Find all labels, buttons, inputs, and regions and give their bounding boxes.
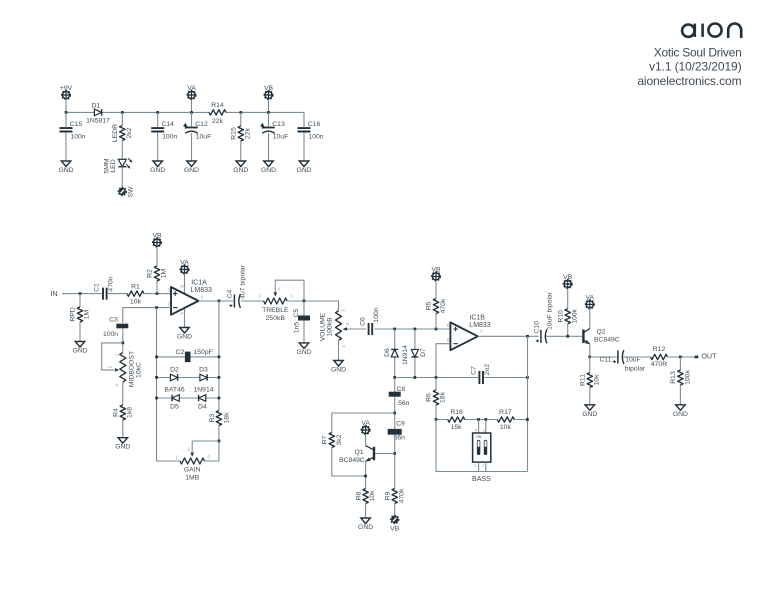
potentiometer TREBLE 250kB — [264, 297, 288, 306]
wire R1 to op-amp — [144, 293, 171, 295]
ground R15 — [236, 161, 246, 167]
svg-text:470k: 470k — [440, 298, 447, 313]
junction VA/C12 — [190, 111, 193, 114]
wire bass bottom row — [436, 420, 528, 472]
svg-text:C12: C12 — [195, 121, 208, 128]
wire IC1A output — [198, 300, 263, 302]
svg-text:D7: D7 — [420, 348, 427, 357]
wire C2 row — [157, 356, 219, 358]
trimmer MIDBOOST 10kC — [118, 353, 127, 383]
trimmer GAIN 1MB — [180, 457, 205, 466]
wire power rail — [66, 111, 304, 113]
svg-text:IN: IN — [50, 289, 57, 298]
wire treble bracket — [275, 280, 304, 301]
pad VA Q1 — [361, 426, 370, 435]
diode D6 — [394, 329, 396, 378]
capacitor C4 — [233, 295, 241, 308]
wire switch pole 1 bottom — [478, 462, 480, 471]
svg-text:4: 4 — [180, 312, 185, 315]
capacitor C14 — [157, 112, 159, 161]
pad VB bias R2 — [153, 238, 162, 247]
wire D5 D4 row — [157, 397, 219, 399]
junction C6/D7 — [414, 328, 417, 331]
capacitor C2 — [185, 352, 191, 363]
pad OUT — [695, 356, 699, 359]
wire R8 to ground — [365, 504, 367, 519]
pad SW — [118, 187, 126, 195]
svg-text:100n: 100n — [308, 134, 323, 141]
switch BASS DIP — [473, 433, 491, 462]
diode D2 — [170, 374, 177, 381]
ground C15 — [61, 161, 71, 167]
junction R5 bottom — [435, 328, 438, 331]
wire bass top row — [436, 419, 528, 421]
wire Q1 emitter to R8 — [365, 461, 367, 488]
junction R13/OUT — [679, 356, 682, 359]
svg-text:GND: GND — [296, 349, 311, 356]
ground RPD — [75, 342, 85, 348]
transistor Q1 BC849C — [373, 447, 375, 461]
svg-text:D1: D1 — [92, 103, 101, 110]
svg-text:3: 3 — [167, 288, 170, 293]
svg-text:VB: VB — [152, 233, 162, 240]
svg-text:C16: C16 — [308, 121, 321, 128]
capacitor C15 — [65, 112, 67, 161]
svg-text:10k: 10k — [593, 374, 600, 386]
svg-text:SW: SW — [127, 186, 134, 198]
resistor R17 — [497, 415, 514, 423]
svg-text:R6: R6 — [426, 393, 433, 402]
svg-text:R3: R3 — [209, 413, 216, 422]
svg-text:GND: GND — [358, 524, 373, 531]
wire R12 to OUT — [668, 356, 695, 358]
svg-text:bipolar: bipolar — [625, 366, 646, 373]
resistor LEDR — [121, 112, 123, 158]
wire C3 to MIDBOOST — [122, 329, 124, 353]
svg-text:BASS: BASS — [472, 476, 491, 483]
pad VB bias R5 — [432, 272, 441, 281]
ground C13 — [264, 161, 274, 167]
junction D5 row right — [218, 397, 221, 400]
transistor Q2 BC849C — [582, 330, 584, 344]
svg-text:R4: R4 — [113, 408, 120, 417]
ground C12 — [187, 161, 197, 167]
junction IN/RPD — [79, 292, 82, 295]
svg-text:1N914: 1N914 — [193, 387, 213, 394]
pad VB R10 — [563, 280, 572, 289]
capacitor C6 — [367, 323, 373, 335]
junction MIDBOOST bracket — [122, 342, 125, 345]
junction R6 top — [435, 376, 438, 379]
resistor R9 — [391, 489, 399, 504]
svg-text:D6: D6 — [384, 348, 391, 357]
junction treble/C5 — [303, 300, 306, 303]
svg-text:100k: 100k — [684, 370, 691, 385]
ground C14 — [153, 161, 163, 167]
diode D5 — [172, 395, 179, 402]
svg-text:R17: R17 — [499, 409, 512, 416]
wire R9 to VB pad — [394, 504, 396, 516]
pad VA Q2 — [585, 300, 594, 309]
wire R7 top bracket — [332, 413, 395, 433]
svg-text:10uF: 10uF — [273, 134, 289, 141]
pad VA power — [187, 91, 196, 100]
svg-text:470R: 470R — [651, 361, 667, 368]
svg-text:GND: GND — [72, 348, 87, 355]
svg-text:10k: 10k — [369, 490, 376, 502]
svg-text:VOLUME: VOLUME — [320, 312, 327, 341]
svg-text:v1.1 (10/23/2019): v1.1 (10/23/2019) — [649, 60, 741, 74]
svg-text:GND: GND — [58, 167, 73, 174]
resistor R3 — [215, 411, 223, 426]
svg-text:GND: GND — [261, 167, 276, 174]
svg-text:LM833: LM833 — [190, 287, 212, 294]
capacitor C1 — [102, 288, 108, 300]
junction Q1 base node — [393, 452, 396, 455]
junction VB/C13 — [267, 111, 270, 114]
resistor R6 — [435, 378, 437, 420]
svg-text:C15: C15 — [70, 121, 83, 128]
svg-text:OUT: OUT — [701, 351, 717, 360]
logo aion — [682, 24, 741, 39]
ground R8 — [361, 518, 371, 524]
svg-text:C5: C5 — [293, 308, 300, 317]
wire C10 to Q2 — [546, 335, 582, 337]
wire C6 to IC1B — [375, 328, 451, 330]
ground C5 — [299, 343, 309, 349]
svg-text:Q2: Q2 — [597, 329, 606, 336]
resistor R12 — [651, 353, 668, 361]
pad +9V — [62, 91, 71, 100]
potentiometer TREBLE wiper arrow — [274, 292, 278, 296]
svg-text:2: 2 — [167, 302, 170, 307]
ground R13 — [676, 405, 686, 411]
wire +9V to rail — [65, 99, 67, 112]
svg-text:LM833: LM833 — [469, 322, 491, 329]
ground R4 — [118, 438, 128, 444]
junction output/feedback — [218, 300, 221, 303]
capacitor C11 — [617, 351, 625, 364]
svg-text:VA: VA — [187, 85, 196, 92]
junction D2 row right — [218, 376, 221, 379]
capacitor C12 — [191, 112, 193, 161]
junction rail/C14 — [156, 111, 159, 114]
wire feedback vertical right — [527, 336, 529, 471]
resistor R1 — [127, 289, 144, 297]
svg-text:C10: C10 — [533, 321, 540, 334]
junction Q1 emitter/R7 — [364, 475, 367, 478]
resistor R13 — [679, 357, 681, 405]
wire R7 bottom bracket — [332, 448, 366, 477]
wire IC1B output — [478, 335, 539, 337]
svg-text:Q1: Q1 — [354, 449, 363, 456]
wire VA to rail — [191, 99, 193, 112]
wire switch pole 2 bottom — [485, 462, 487, 471]
svg-text:1M: 1M — [161, 268, 168, 278]
wire feedback rail right — [205, 301, 219, 461]
diode D1 — [94, 109, 101, 116]
svg-text:10k: 10k — [500, 424, 512, 431]
junction GAIN bracket — [218, 440, 221, 443]
wire VA to IC1A pin 8 — [184, 274, 186, 295]
svg-text:6: 6 — [447, 338, 450, 343]
svg-text:MIDBOOST: MIDBOOST — [129, 351, 136, 387]
svg-text:56n: 56n — [394, 435, 406, 442]
svg-text:10k: 10k — [130, 299, 142, 306]
svg-text:VB: VB — [563, 274, 573, 281]
wire input — [62, 293, 127, 295]
svg-text:100n: 100n — [103, 331, 118, 338]
svg-text:GND: GND — [673, 411, 688, 418]
svg-text:56n: 56n — [398, 400, 410, 407]
svg-text:22k: 22k — [245, 127, 252, 139]
wire Q2 emitter down — [589, 344, 591, 357]
svg-text:100n: 100n — [162, 134, 177, 141]
svg-text:R8: R8 — [355, 491, 362, 500]
pad VB Q1 — [391, 515, 399, 523]
diode D3 — [200, 374, 207, 381]
svg-text:ON: ON — [476, 435, 482, 439]
svg-text:VA: VA — [586, 294, 595, 301]
trimmer GAIN wiper arrow — [190, 453, 194, 457]
svg-text:100k: 100k — [572, 308, 579, 323]
svg-text:IC1B: IC1B — [469, 314, 485, 321]
LED 5MM — [118, 159, 126, 167]
junction C2 left — [155, 356, 158, 359]
wire feedback row IC1B — [395, 377, 528, 379]
wire C11 to R12 — [623, 356, 651, 358]
wire switch pole 1 top — [478, 420, 480, 434]
junction D2 row left — [155, 376, 158, 379]
ground VOLUME — [334, 361, 344, 367]
resistor RPD — [79, 294, 81, 342]
svg-text:IC1A: IC1A — [191, 280, 207, 287]
capacitor C16 — [303, 112, 305, 161]
wire D2 D3 row — [157, 377, 219, 379]
svg-text:4: 4 — [475, 428, 477, 432]
junction C6/D6 — [393, 328, 396, 331]
svg-text:GND: GND — [115, 444, 130, 451]
svg-text:R9: R9 — [384, 491, 391, 500]
svg-text:VA: VA — [361, 420, 370, 427]
svg-text:LED: LED — [110, 159, 117, 172]
junction R10/Q2 base — [566, 335, 569, 338]
svg-text:VA: VA — [180, 260, 189, 267]
svg-text:R13: R13 — [670, 371, 677, 384]
svg-text:5: 5 — [447, 323, 450, 328]
svg-text:1M: 1M — [84, 309, 91, 319]
svg-text:C7: C7 — [471, 366, 478, 375]
junction Q2 emitter — [588, 356, 591, 359]
svg-text:R14: R14 — [211, 102, 224, 109]
svg-text:15k: 15k — [451, 424, 463, 431]
junction rail/LEDR — [121, 111, 124, 114]
wire LED to SW — [121, 167, 123, 188]
resistor R4 — [122, 382, 124, 438]
svg-text:100n: 100n — [373, 307, 380, 322]
svg-text:C1: C1 — [94, 283, 101, 292]
resistor R7 — [328, 433, 336, 448]
svg-text:D5: D5 — [170, 404, 179, 411]
svg-text:GND: GND — [177, 334, 192, 341]
junction +9V/C15 — [65, 111, 68, 114]
svg-text:aionelectronics.com: aionelectronics.com — [637, 74, 741, 88]
junction switch pole 1 top — [477, 418, 480, 421]
svg-text:GND: GND — [582, 411, 597, 418]
op-amp IC1A — [171, 287, 198, 315]
svg-text:C13: C13 — [272, 121, 285, 128]
svg-text:C11: C11 — [600, 357, 612, 364]
junction C8/R7 — [393, 412, 396, 415]
svg-text:C8: C8 — [397, 386, 406, 393]
svg-text:250kB: 250kB — [266, 315, 286, 322]
wire VB to rail — [268, 99, 270, 112]
svg-text:GND: GND — [296, 167, 311, 174]
wire MIDBOOST wiper bracket — [102, 343, 123, 370]
svg-text:BAT46: BAT46 — [164, 387, 184, 394]
svg-text:R2: R2 — [147, 269, 154, 278]
svg-text:2: 2 — [482, 464, 484, 468]
junction D7 bottom — [414, 376, 417, 379]
svg-text:+9V: +9V — [60, 85, 73, 92]
svg-text:R7: R7 — [321, 435, 328, 444]
ground R11 — [585, 405, 595, 411]
capacitor C9 — [388, 429, 402, 435]
potentiometer VOLUME wiper arrow — [345, 328, 367, 330]
junction bass right — [526, 418, 529, 421]
svg-text:100kB: 100kB — [327, 317, 334, 337]
svg-text:C14: C14 — [161, 121, 174, 128]
svg-text:100n: 100n — [70, 134, 85, 141]
svg-text:2k2: 2k2 — [126, 127, 133, 138]
potentiometer VOLUME 100kB — [334, 311, 343, 341]
wire treble to volume — [287, 301, 338, 311]
svg-text:R1: R1 — [131, 284, 140, 291]
svg-text:3: 3 — [483, 428, 485, 432]
svg-text:150pF: 150pF — [194, 349, 213, 356]
wire C9 to base node — [394, 435, 396, 489]
svg-text:10kC: 10kC — [136, 362, 143, 378]
capacitor C3 — [116, 324, 128, 329]
svg-text:470k: 470k — [398, 488, 405, 503]
svg-text:LEDR: LEDR — [112, 124, 119, 142]
trimmer MIDBOOST wiper arrow — [115, 368, 119, 372]
svg-text:1N5817: 1N5817 — [86, 118, 110, 125]
svg-text:10uF bipolar: 10uF bipolar — [547, 291, 554, 330]
svg-text:GND: GND — [184, 167, 199, 174]
svg-text:C2: C2 — [176, 349, 185, 356]
svg-text:R15: R15 — [230, 127, 237, 140]
resistor R2 — [156, 247, 158, 294]
svg-text:7: 7 — [480, 330, 483, 335]
wire Q1 base — [375, 453, 395, 455]
svg-text:TREBLE: TREBLE — [262, 307, 289, 314]
svg-text:D2: D2 — [170, 367, 179, 374]
diode D4 — [199, 395, 206, 402]
capacitor C8 — [394, 378, 396, 430]
wire emitter to C11 — [590, 356, 617, 358]
pad VB power — [264, 91, 273, 100]
svg-text:GND: GND — [331, 367, 346, 374]
capacitor C13 — [268, 112, 270, 161]
svg-text:470n: 470n — [108, 276, 115, 291]
wire VA to Q1 collector — [365, 434, 367, 445]
svg-text:4u7 bipolar: 4u7 bipolar — [240, 264, 247, 298]
junction switch pole 2 top — [484, 418, 487, 421]
svg-text:1: 1 — [201, 294, 204, 299]
svg-text:2n2: 2n2 — [484, 364, 491, 376]
svg-text:1n5: 1n5 — [293, 322, 300, 334]
svg-text:VB: VB — [431, 266, 441, 273]
junction R2/+input — [156, 292, 159, 295]
capacitor C10 — [540, 330, 548, 343]
svg-text:BC849C: BC849C — [339, 457, 365, 464]
svg-text:22k: 22k — [212, 118, 224, 125]
svg-text:C6: C6 — [360, 317, 367, 326]
svg-text:18k: 18k — [440, 391, 447, 403]
ground IC1A — [180, 328, 190, 334]
svg-text:D3: D3 — [199, 367, 208, 374]
svg-text:8: 8 — [180, 285, 185, 288]
svg-text:D4: D4 — [198, 404, 207, 411]
wire GAIN wiper bracket — [192, 441, 219, 452]
junction bass left — [435, 418, 438, 421]
svg-text:3k2: 3k2 — [336, 434, 343, 445]
junction D5 row left — [155, 397, 158, 400]
wire VA to Q2 collector — [589, 309, 591, 329]
svg-text:VB: VB — [390, 526, 400, 533]
op-amp IC1B — [450, 322, 477, 350]
resistor R10 — [567, 288, 569, 336]
resistor R8 — [361, 489, 369, 504]
wire IC1B inverting input — [436, 344, 450, 378]
resistor R15 — [240, 112, 242, 161]
svg-text:C9: C9 — [396, 420, 405, 427]
svg-text:1k8: 1k8 — [127, 407, 134, 418]
svg-text:R11: R11 — [580, 374, 587, 386]
svg-text:GND: GND — [233, 167, 248, 174]
resistor R5 — [435, 281, 437, 329]
pad VA op-amp IC1A — [180, 265, 189, 274]
svg-text:R16: R16 — [450, 409, 463, 416]
svg-text:1: 1 — [475, 464, 477, 468]
capacitor C7 — [478, 371, 484, 384]
resistor R14 — [209, 108, 226, 116]
svg-text:10uF: 10uF — [196, 134, 212, 141]
wire IC1A inverting input — [123, 308, 171, 324]
svg-text:18k: 18k — [224, 412, 231, 424]
svg-text:C3: C3 — [109, 317, 118, 324]
svg-text:1N914: 1N914 — [402, 345, 409, 365]
junction rail/R15 — [240, 111, 243, 114]
ground C16 — [299, 161, 309, 167]
svg-text:BC849C: BC849C — [594, 337, 620, 344]
junction C2 right — [218, 356, 221, 359]
svg-text:RPD: RPD — [70, 307, 77, 321]
junction D6 bottom — [393, 376, 396, 379]
junction -input/feedback rail — [155, 306, 158, 309]
junction C7 right — [526, 376, 529, 379]
svg-text:R10: R10 — [557, 310, 564, 323]
svg-text:GAIN: GAIN — [184, 467, 201, 474]
resistor R16 — [448, 415, 465, 423]
svg-text:GND: GND — [150, 167, 165, 174]
svg-text:VB: VB — [264, 85, 274, 92]
wire feedback rail left — [157, 308, 180, 461]
svg-text:R5: R5 — [426, 301, 433, 310]
capacitor C5 — [303, 301, 305, 343]
wire IC1A pin 4 to ground — [184, 306, 186, 328]
